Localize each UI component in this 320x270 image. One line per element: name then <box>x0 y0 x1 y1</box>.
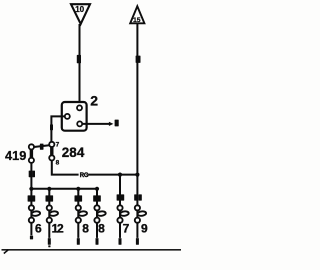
svg-text:10: 10 <box>75 5 84 14</box>
svg-text:8: 8 <box>56 159 60 166</box>
svg-text:9: 9 <box>141 221 148 235</box>
svg-text:419: 419 <box>5 148 26 163</box>
svg-text:8: 8 <box>82 221 89 235</box>
svg-text:7: 7 <box>123 221 130 235</box>
svg-text:7: 7 <box>56 142 60 149</box>
svg-text:2: 2 <box>90 92 98 108</box>
svg-text:8: 8 <box>98 221 105 235</box>
svg-text:15: 15 <box>133 17 141 24</box>
svg-text:RG: RG <box>80 173 89 179</box>
svg-text:12: 12 <box>52 221 64 235</box>
svg-text:6: 6 <box>35 221 42 235</box>
svg-text:284: 284 <box>62 145 85 160</box>
